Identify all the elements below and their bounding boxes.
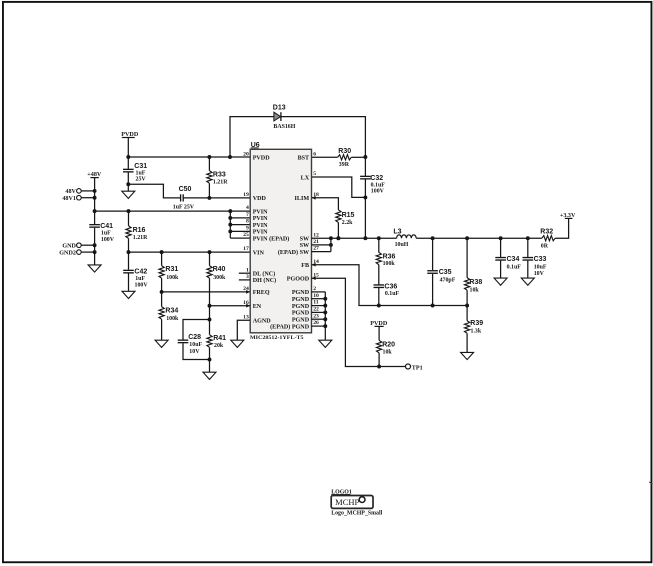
svg-text:26: 26	[313, 320, 319, 326]
wire PGND bus	[312, 291, 326, 293]
svg-text:MCHP: MCHP	[335, 498, 360, 507]
resistor R40	[209, 252, 211, 266]
svg-text:L3: L3	[393, 229, 401, 236]
svg-text:6: 6	[313, 151, 316, 157]
svg-text:R38: R38	[469, 279, 482, 286]
ground	[521, 278, 534, 285]
svg-text:1uF 25V: 1uF 25V	[173, 205, 195, 211]
svg-text:10: 10	[313, 293, 319, 299]
wire +48V rail	[95, 210, 251, 212]
svg-text:10uH: 10uH	[395, 242, 409, 248]
svg-text:R33: R33	[213, 172, 226, 179]
svg-text:PVIN: PVIN	[253, 230, 268, 236]
wire PGOOD to TP1	[312, 278, 406, 366]
svg-text:PVIN: PVIN	[253, 223, 268, 229]
svg-text:C33: C33	[534, 256, 547, 263]
wire FB net	[312, 265, 468, 306]
wire to +3.3V	[555, 218, 569, 238]
pin stub DH (NC)	[239, 279, 250, 281]
wire EN	[210, 305, 251, 307]
wire LX to C32	[312, 177, 366, 197]
ground	[461, 352, 474, 359]
svg-text:0R: 0R	[541, 243, 549, 249]
svg-text:27: 27	[313, 246, 319, 252]
diode D13	[274, 112, 281, 121]
svg-text:22: 22	[313, 307, 319, 313]
resistor R38	[466, 238, 468, 277]
svg-text:48V1: 48V1	[62, 196, 76, 202]
svg-text:DL (NC): DL (NC)	[253, 271, 276, 278]
capacitor C35	[432, 238, 434, 270]
svg-text:MIC28512-1YFL-T5: MIC28512-1YFL-T5	[250, 335, 304, 341]
svg-text:17: 17	[243, 246, 249, 252]
resistor R20	[377, 340, 382, 353]
svg-text:C36: C36	[384, 284, 397, 291]
wire D13 to BST node	[282, 117, 366, 157]
svg-text:21: 21	[313, 239, 319, 245]
svg-text:PGND: PGND	[292, 304, 310, 310]
svg-text:R36: R36	[383, 253, 396, 260]
resistor R32	[542, 236, 555, 241]
svg-text:BAS16H: BAS16H	[273, 124, 295, 130]
svg-text:20: 20	[243, 151, 249, 157]
svg-text:C35: C35	[439, 269, 452, 276]
svg-text:Logo_MCHP_Small: Logo_MCHP_Small	[331, 511, 382, 517]
svg-text:0.1uF: 0.1uF	[385, 291, 400, 297]
ground	[155, 340, 168, 347]
capacitor C34	[500, 238, 502, 257]
svg-text:FB: FB	[301, 263, 309, 269]
svg-text:100V: 100V	[371, 189, 385, 195]
svg-text:R41: R41	[213, 335, 226, 342]
svg-text:R31: R31	[165, 266, 178, 273]
svg-text:PGND: PGND	[292, 318, 310, 324]
svg-text:C42: C42	[134, 268, 147, 275]
svg-text:1.21R: 1.21R	[213, 179, 228, 185]
svg-text:1uF: 1uF	[101, 231, 111, 237]
svg-text:DH (NC): DH (NC)	[253, 277, 277, 284]
capacitor C32	[364, 157, 366, 176]
svg-text:C41: C41	[100, 223, 113, 230]
svg-text:10V: 10V	[189, 349, 200, 355]
svg-text:25: 25	[243, 232, 249, 238]
capacitor C42	[128, 252, 130, 270]
svg-text:D13: D13	[273, 105, 286, 112]
svg-text:48V: 48V	[65, 189, 76, 195]
svg-text:PVIN: PVIN	[253, 216, 268, 222]
svg-text:R15: R15	[342, 212, 355, 219]
wire FREQ	[162, 291, 251, 293]
svg-text:PVDD: PVDD	[253, 156, 271, 162]
svg-text:1: 1	[246, 267, 249, 273]
capacitor C31	[127, 157, 129, 169]
svg-text:1uF: 1uF	[135, 276, 145, 282]
capacitor C41	[94, 211, 96, 224]
wire VIN rail	[129, 251, 251, 253]
resistor R41	[209, 306, 211, 335]
svg-text:100V: 100V	[135, 283, 149, 289]
svg-text:C32: C32	[370, 175, 383, 182]
svg-text:10uF: 10uF	[534, 264, 547, 270]
svg-text:(EPAD) SW: (EPAD) SW	[278, 249, 309, 256]
svg-text:8: 8	[246, 219, 249, 225]
resistor R16	[128, 211, 130, 226]
ground	[122, 291, 135, 298]
svg-text:2.2k: 2.2k	[342, 220, 353, 226]
svg-text:SW: SW	[300, 237, 309, 243]
capacitor C36	[374, 284, 385, 286]
svg-text:7: 7	[246, 212, 249, 218]
pin stub DL (NC)	[239, 272, 250, 274]
svg-text:PGND: PGND	[292, 311, 310, 317]
svg-text:PGOOD: PGOOD	[287, 277, 310, 283]
wire to D13	[230, 117, 274, 157]
svg-text:LX: LX	[301, 175, 310, 181]
wire output rail	[416, 237, 542, 239]
svg-text:R34: R34	[165, 307, 178, 314]
svg-text:12: 12	[313, 232, 319, 238]
svg-text:SW: SW	[300, 243, 309, 249]
svg-text:FREQ: FREQ	[253, 290, 270, 296]
svg-text:C28: C28	[188, 334, 201, 341]
wire AGND	[237, 320, 250, 340]
svg-text:100k: 100k	[166, 275, 179, 281]
wire C31 to C50	[128, 184, 180, 198]
ground	[127, 184, 129, 191]
test point TP1	[406, 364, 411, 369]
wire PVDD rail	[128, 156, 250, 158]
svg-text:100k: 100k	[383, 261, 396, 267]
svg-text:10k: 10k	[383, 350, 393, 356]
svg-text:19: 19	[243, 192, 249, 198]
svg-text:PVIN (EPAD): PVIN (EPAD)	[253, 235, 290, 242]
svg-text:9: 9	[246, 226, 249, 232]
svg-text:5: 5	[313, 171, 316, 177]
svg-text:3: 3	[246, 274, 249, 280]
svg-text:GND2: GND2	[59, 250, 76, 256]
pin arrow ILIM	[312, 196, 316, 200]
svg-text:PVIN: PVIN	[253, 209, 268, 215]
resistor R33	[208, 157, 210, 171]
capacitor C50	[180, 194, 182, 201]
wire PVIN bus	[229, 211, 231, 238]
resistor R34	[159, 307, 164, 320]
svg-text:VIN: VIN	[253, 250, 265, 256]
svg-text:10uF: 10uF	[189, 342, 202, 348]
inductor L3	[397, 235, 417, 238]
svg-text:10k: 10k	[470, 288, 480, 294]
svg-text:25V: 25V	[136, 177, 147, 183]
svg-text:11: 11	[313, 300, 319, 306]
pin arrow PGOOD	[312, 276, 316, 280]
svg-text:10V: 10V	[534, 271, 545, 277]
svg-text:(EPAD) PGND: (EPAD) PGND	[270, 323, 310, 330]
resistor R36	[378, 238, 380, 252]
svg-text:R30: R30	[338, 148, 351, 155]
svg-text:0.1uF: 0.1uF	[507, 264, 522, 270]
svg-text:C50: C50	[179, 186, 192, 193]
svg-text:470pF: 470pF	[440, 278, 456, 284]
svg-text:100k: 100k	[166, 316, 179, 322]
capacitor C28	[183, 320, 210, 340]
svg-text:13: 13	[243, 314, 249, 320]
resistor R31	[161, 252, 163, 266]
svg-text:R40: R40	[213, 266, 226, 273]
svg-text:R32: R32	[540, 229, 553, 236]
svg-text:VDD: VDD	[253, 196, 267, 202]
svg-text:2: 2	[313, 286, 316, 292]
ground	[203, 372, 216, 379]
ground	[319, 340, 332, 347]
pin arrow FB	[312, 263, 316, 267]
wire ILIM to R15	[312, 198, 339, 210]
svg-text:GND: GND	[62, 244, 76, 250]
svg-text:100V: 100V	[101, 237, 115, 243]
svg-text:PGND: PGND	[292, 290, 310, 296]
resistor R30	[312, 156, 338, 158]
svg-text:20k: 20k	[214, 343, 224, 349]
wire SW rail	[312, 237, 397, 239]
svg-text:300k: 300k	[213, 275, 226, 281]
pin arrow FREQ	[246, 290, 250, 294]
resistor R15	[336, 210, 341, 223]
svg-text:AGND: AGND	[253, 319, 272, 325]
ground	[494, 278, 507, 285]
svg-text:R39: R39	[470, 320, 483, 327]
svg-text:R20: R20	[382, 342, 395, 349]
svg-text:1.3k: 1.3k	[471, 328, 482, 334]
svg-text:BST: BST	[298, 156, 310, 162]
svg-text:R16: R16	[133, 227, 146, 234]
wire SW bus	[330, 238, 332, 251]
svg-text:TP1: TP1	[412, 365, 423, 371]
ground	[231, 340, 244, 347]
svg-text:C34: C34	[507, 256, 520, 263]
resistor R39	[466, 306, 468, 321]
pin arrow EN	[246, 304, 250, 308]
svg-text:ILIM: ILIM	[295, 196, 310, 202]
svg-text:C31: C31	[134, 163, 147, 170]
svg-text:PGND: PGND	[292, 297, 310, 303]
ground	[88, 265, 101, 272]
svg-text:39R: 39R	[339, 162, 350, 168]
svg-text:23: 23	[313, 313, 319, 319]
svg-text:EN: EN	[253, 304, 262, 310]
capacitor C33	[527, 238, 529, 257]
svg-text:4: 4	[246, 205, 249, 211]
IC U6 MIC28512-1YFL-T5	[250, 149, 311, 332]
svg-text:1.21R: 1.21R	[133, 235, 148, 241]
